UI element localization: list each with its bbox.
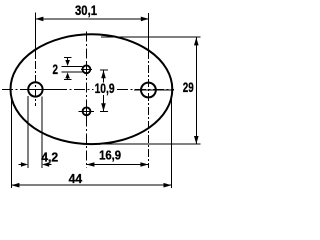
dimension 16,9 (pin to hole center) (86, 148, 148, 167)
dimension 10,9 (pin spacing) (94, 70, 116, 112)
dimension 2 (pin hole diameter) (53, 57, 83, 79)
svg-text:16,9: 16,9 (99, 148, 121, 163)
svg-text:30,1: 30,1 (75, 2, 97, 18)
dimension 4,2 (mounting hole diameter) (19, 96, 59, 168)
svg-text:29: 29 (183, 79, 194, 95)
horizontal centerline (2, 89, 174, 91)
mounting hole left (28, 82, 42, 96)
flange outline (TO-3 package oval) (11, 34, 173, 144)
svg-text:10,9: 10,9 (95, 80, 115, 96)
pin hole lower (79, 105, 94, 118)
left hole centerline / 30,1 extension (34, 13, 36, 107)
dimension 30,1 (hole spacing) (35, 2, 148, 21)
dimension 44 (overall width) (11, 95, 171, 188)
svg-text:2: 2 (53, 61, 59, 77)
pin hole upper (81, 63, 92, 76)
right hole centerline / 30,1 + 16,9 extension (148, 13, 150, 168)
svg-text:44: 44 (69, 171, 83, 186)
mounting hole right (141, 83, 156, 98)
vertical centerline through pins (85, 32, 87, 168)
svg-text:4,2: 4,2 (41, 149, 58, 164)
dimension 29 (package height) (90, 37, 201, 144)
